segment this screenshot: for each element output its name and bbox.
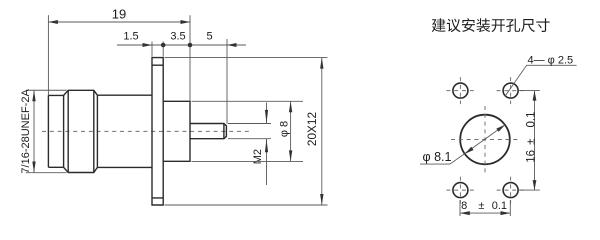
svg-text:3.5: 3.5 <box>170 31 185 43</box>
small hole bottom-right centerlines <box>497 177 525 204</box>
boss dia 8 outline <box>163 101 190 161</box>
svg-text:0.1: 0.1 <box>525 112 537 128</box>
arrow at flange left face pointing right <box>143 43 153 47</box>
label dia8.1 leader with diameter arrows <box>420 125 505 164</box>
svg-text:19: 19 <box>112 6 126 21</box>
20X12 dimension line <box>321 58 323 205</box>
svg-text:7/16-28UNEF-2A: 7/16-28UNEF-2A <box>20 89 32 174</box>
svg-text:±: ± <box>478 200 484 212</box>
small hole top-right centerlines <box>497 77 525 104</box>
dimension 19 arrows <box>48 20 190 24</box>
small hole top-left centerlines <box>446 77 474 104</box>
dot terminator at flange right face <box>161 43 166 48</box>
dim 8 line <box>460 212 510 214</box>
svg-text:1.5: 1.5 <box>123 31 138 43</box>
thread section B outline 7/16-28UNEF <box>64 90 98 172</box>
dim 8 arrows <box>460 211 510 215</box>
big circle centerlines <box>451 106 519 173</box>
small hole bottom-right <box>503 183 518 198</box>
dim 8 extension lines <box>460 200 510 216</box>
extension line flange left face <box>151 42 153 57</box>
dia8 arrows <box>289 101 292 161</box>
label 4-dia2.5 leader <box>505 65 577 96</box>
extension line flange right face <box>162 42 164 57</box>
extension line stud tip for dim 5 <box>226 39 228 124</box>
svg-text:φ 8.1: φ 8.1 <box>423 150 452 164</box>
extension line boss right face for dim 19 <box>189 15 191 101</box>
arrow at stud tip pointing left <box>227 43 237 47</box>
barrel section outline <box>97 95 152 167</box>
svg-text:8: 8 <box>461 200 467 212</box>
dia8 dimension line <box>290 101 292 161</box>
M2 dimension lines <box>266 103 268 186</box>
extension line left face for dim 19 <box>47 15 49 95</box>
svg-text:±: ± <box>525 139 537 145</box>
dim 16 arrows <box>533 91 537 191</box>
svg-text:φ 8: φ 8 <box>279 121 291 137</box>
M2 extension lines <box>228 124 271 139</box>
dot terminator at boss right face <box>188 43 193 48</box>
extension lines thread diameter <box>26 90 67 172</box>
small hole bottom-left centerlines <box>446 177 474 204</box>
M2 stud outline <box>190 124 226 139</box>
small hole top-left <box>453 83 468 98</box>
title text <box>432 18 550 32</box>
M2 arrows <box>265 110 268 152</box>
20X12 extension lines <box>165 58 328 205</box>
svg-text:20X12: 20X12 <box>305 112 319 146</box>
svg-text:4— φ 2.5: 4— φ 2.5 <box>527 55 573 67</box>
small hole top-right <box>503 83 518 98</box>
thread dim arrows <box>32 90 35 172</box>
dimension line thread diameter <box>33 90 35 172</box>
dim 16 extension lines <box>519 91 540 191</box>
dimension line 1.5 / 3.5 / 5 <box>117 44 246 46</box>
flange plate outline <box>152 58 163 205</box>
connector nose section A outline <box>48 95 63 167</box>
20X12 arrows <box>320 58 323 205</box>
svg-text:16: 16 <box>525 150 537 163</box>
dimension 19 line <box>48 21 190 23</box>
small hole bottom-left <box>453 183 468 198</box>
centerline main axis <box>42 130 250 132</box>
big hole circle dia 8.1 <box>460 115 510 165</box>
svg-text:0.1: 0.1 <box>492 200 507 212</box>
svg-text:5: 5 <box>207 31 213 43</box>
dim 16 line <box>534 91 536 191</box>
dia8 extension lines <box>192 101 304 161</box>
svg-text:M2: M2 <box>252 149 264 164</box>
